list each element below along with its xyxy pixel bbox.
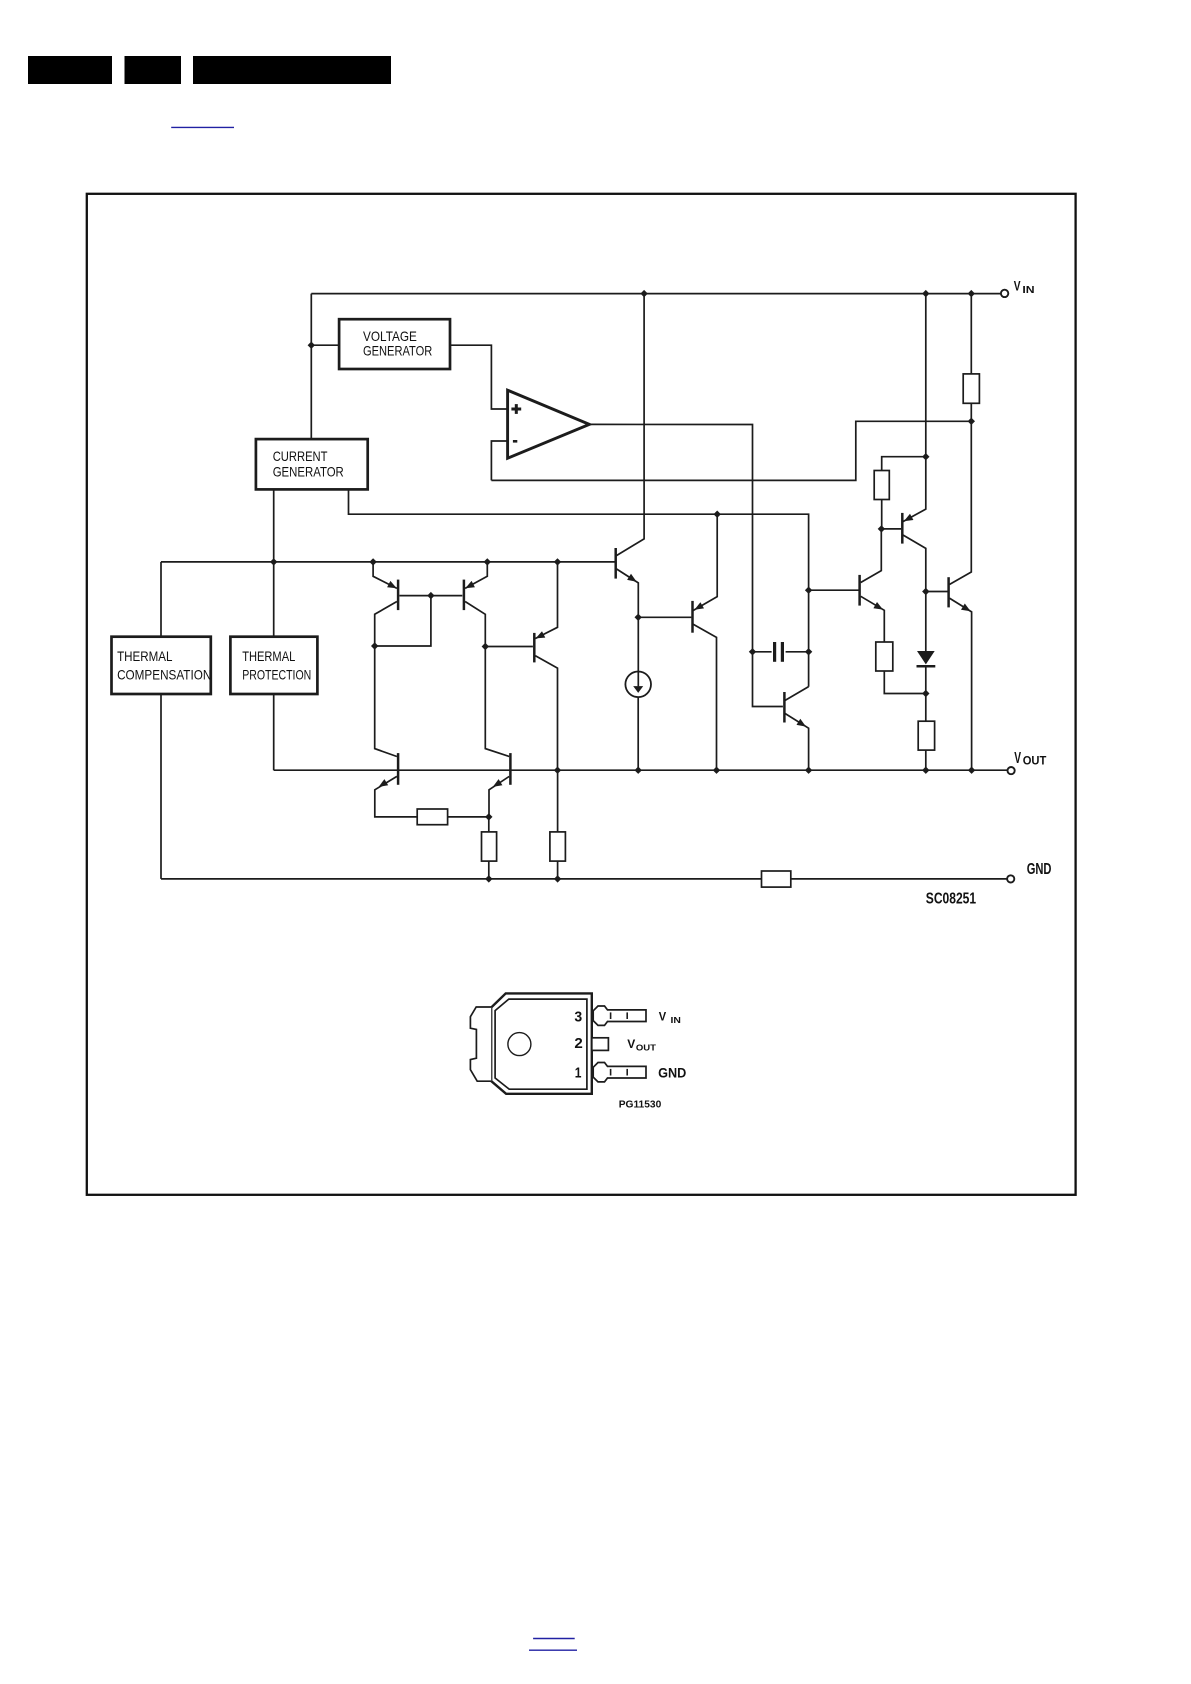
wire Q5 base <box>485 646 533 648</box>
node VG tap <box>308 342 315 349</box>
wire Q6 collector <box>903 535 926 591</box>
wire D1 anode lead <box>925 592 927 652</box>
wire current source to VOUT rail <box>637 697 639 770</box>
wire voltage-generator left lead <box>311 344 339 346</box>
resistor R8 (GND lead) <box>762 871 791 887</box>
transistor Q5 (PNP) <box>533 633 536 663</box>
package lead pin 3 <box>593 1006 646 1025</box>
wire R7 bottom to Q11 collector <box>949 403 971 584</box>
svg-text:OUT: OUT <box>1023 753 1047 767</box>
node VIN/Q6 <box>922 290 929 297</box>
wire Q5 collector to VOUT rail <box>535 656 557 771</box>
current source CS1 <box>625 672 651 698</box>
wire Q9 emitter to VOUT rail <box>785 713 809 770</box>
svg-text:IN: IN <box>1022 284 1034 296</box>
wire R3 top lead <box>557 770 559 832</box>
wire R2 bottom lead <box>488 861 490 879</box>
wire Q11 base <box>926 591 948 593</box>
svg-text:IN: IN <box>671 1015 681 1025</box>
node VOUT/Q9 <box>805 767 812 774</box>
node C1 left <box>749 648 756 655</box>
resistor R6 <box>918 721 934 750</box>
wire Q10 base <box>809 589 859 591</box>
node Q6 coll / Q11 base <box>922 588 929 595</box>
wire Q7 collector to VIN rail <box>616 294 644 556</box>
resistor R3 <box>550 832 566 861</box>
node VIN/R7 <box>968 290 975 297</box>
svg-text:3: 3 <box>574 1009 582 1026</box>
node mirror bases <box>427 592 434 599</box>
svg-text:THERMAL: THERMAL <box>117 648 173 664</box>
block THERMAL PROTECTION <box>230 637 317 694</box>
svg-text:PG11530: PG11530 <box>619 1099 662 1110</box>
wire Q6 emitter from VIN rail <box>903 294 926 522</box>
wire Q8 emitter column <box>693 514 717 610</box>
resistor R5 <box>876 642 893 671</box>
node GND/R3 <box>554 875 561 882</box>
node R4 bottom / Q6 base <box>878 525 885 532</box>
wire thermal-protection drop to VOUT rail <box>273 693 275 770</box>
wire Q2 emitter <box>465 562 487 589</box>
figure border frame <box>87 194 1076 1195</box>
resistor R1 <box>417 809 447 825</box>
node rail562/Q5 <box>554 558 561 565</box>
svg-text:2: 2 <box>574 1035 582 1052</box>
svg-text:GND: GND <box>1027 861 1052 878</box>
wire VIN-rail left drop to generators <box>310 294 312 440</box>
blue footer link line 1 <box>533 1638 575 1640</box>
node VOUT/Q8 <box>713 767 720 774</box>
wire R6 bottom lead <box>925 750 927 770</box>
node C1 right <box>805 648 812 655</box>
package hole <box>508 1033 531 1056</box>
wire Q2 collector to Q4 <box>465 602 509 757</box>
svg-text:SC08251: SC08251 <box>926 891 976 908</box>
resistor R7 (VIN divider top) <box>963 374 979 403</box>
wire C1 right lead <box>786 651 809 653</box>
wire voltage-generator output to op-amp + <box>450 345 507 409</box>
node rail/Q8 <box>714 511 721 518</box>
wire R3 bottom lead <box>557 861 559 879</box>
package lead pin 2 <box>592 1038 609 1051</box>
wire feedback line to divider node <box>491 421 971 480</box>
wire R1 to node <box>448 816 489 818</box>
svg-text:GND: GND <box>658 1065 686 1081</box>
node VOUT/Q11 <box>968 767 975 774</box>
transistor Q4 (NPN) <box>509 753 512 785</box>
svg-text:THERMAL: THERMAL <box>242 648 295 664</box>
package body inner outline <box>495 999 587 1089</box>
node Q1 coll <box>371 642 378 649</box>
transistor Q3 (NPN) <box>397 753 400 785</box>
wire R5 to diode node <box>884 671 926 694</box>
block THERMAL COMPENSATION <box>112 637 211 694</box>
node rail562/Q1 <box>369 558 376 565</box>
transistor Q9 (NPN) <box>783 692 786 723</box>
svg-text:V: V <box>659 1010 667 1024</box>
node VIN/Q7 <box>640 290 647 297</box>
wire Q9 collector diagonal <box>785 687 809 701</box>
redacted title bar 1 <box>28 56 112 84</box>
node rail562/TP <box>270 558 277 565</box>
wire R4 bottom <box>881 500 883 529</box>
node R4 top <box>922 453 929 460</box>
wire Q10 collector <box>861 529 882 583</box>
node VOUT/Q5 <box>554 767 561 774</box>
wire R6 top lead <box>925 694 927 722</box>
node Q2 coll / Q5 base <box>482 643 489 650</box>
transistor Q7 (NPN darlington 1) <box>614 548 617 579</box>
op-amp U1 error amplifier <box>508 390 590 458</box>
wire Q1 collector to Q3 <box>375 602 397 757</box>
resistor R2 <box>482 832 497 861</box>
package lead pin 1 <box>593 1063 646 1082</box>
terminal GND <box>1007 875 1014 882</box>
svg-text:V: V <box>1014 277 1021 293</box>
svg-text:1: 1 <box>575 1064 582 1081</box>
wire thermal-compensation to GND rail <box>160 693 162 879</box>
package mounting tab <box>470 1007 491 1081</box>
svg-text:CURRENT: CURRENT <box>273 448 328 464</box>
blue footer link line 2 <box>529 1649 577 1651</box>
wire op-amp - input <box>491 441 507 480</box>
transistor Q10 (NPN) <box>858 575 861 606</box>
transistor Q11 (NPN output) <box>947 577 950 607</box>
wire op-amp output to C1/Q9 base <box>589 424 783 706</box>
node Q7 em / Q8 base <box>635 614 642 621</box>
block VOLTAGE GENERATOR <box>339 319 450 369</box>
wire GND rail <box>161 878 1007 880</box>
transistor Q8 (PNP darlington 2) <box>691 601 694 633</box>
wire thermal-compensation top drop <box>160 562 162 637</box>
node diode bottom <box>922 690 929 697</box>
node feedback/R7 <box>968 418 975 425</box>
wire Q1-Q2 base tie <box>400 595 463 597</box>
wire D1 cathode lead <box>925 666 927 693</box>
resistor R4 <box>874 471 889 500</box>
svg-text:PROTECTION: PROTECTION <box>242 666 311 682</box>
wire R2 top lead <box>488 817 490 832</box>
svg-text:GENERATOR: GENERATOR <box>273 464 344 480</box>
wire VIN rail <box>311 293 1001 295</box>
redacted title bar 2 <box>125 56 182 84</box>
wire R7 top lead from VIN rail <box>970 294 972 374</box>
wire Q1 emitter <box>373 562 397 589</box>
svg-text:GENERATOR: GENERATOR <box>363 342 432 358</box>
node rail562/Q2 <box>484 558 491 565</box>
wire current-generator to internal rail / Q9 collector column <box>349 489 809 686</box>
wire current-generator left drop <box>273 489 275 637</box>
package body outer outline (DPAK) <box>491 993 592 1093</box>
node VOUT/CS1 <box>635 767 642 774</box>
blue hyperlink underline <box>171 126 234 128</box>
svg-text:OUT: OUT <box>636 1043 657 1053</box>
wire Q5 emitter <box>535 562 557 639</box>
terminal VIN <box>1001 290 1008 297</box>
node R1/R2/Q4 <box>485 813 492 820</box>
redacted title bar 3 <box>193 56 391 84</box>
wire Q4 emitter <box>489 776 509 817</box>
wire Q6 base <box>881 528 901 530</box>
svg-text:COMPENSATION: COMPENSATION <box>117 666 211 682</box>
capacitor C1 <box>773 642 776 662</box>
svg-text:V: V <box>1014 750 1021 767</box>
diode D1 <box>917 651 935 664</box>
node GND/R2 <box>485 875 492 882</box>
wire VOUT rail <box>274 769 1008 771</box>
transistor Q2 (PNP mirror right) <box>463 580 466 611</box>
wire C1 left lead <box>753 651 772 653</box>
block CURRENT GENERATOR <box>256 439 368 489</box>
wire bias rail (mirror emitters) <box>161 561 615 563</box>
transistor Q1 (PNP mirror left) <box>397 580 400 611</box>
wire base tie drop to Q1 collector <box>376 596 431 646</box>
wire Q8 base <box>638 616 691 618</box>
wire Q11 emitter to VOUT rail <box>949 598 971 770</box>
node Q10 base <box>805 587 812 594</box>
svg-text:V: V <box>627 1037 636 1051</box>
wire Q7 emitter to current source <box>616 569 638 687</box>
node VOUT/R6 <box>922 767 929 774</box>
wire Q8 collector to VOUT rail <box>693 624 716 770</box>
terminal VOUT <box>1008 767 1015 774</box>
wire Q3 emitter to R1 <box>375 776 417 817</box>
wire Q10 emitter to R5 <box>861 596 885 642</box>
transistor Q6 (PNP) <box>901 513 904 544</box>
wire R4 top to Q6 emitter column <box>882 457 926 471</box>
